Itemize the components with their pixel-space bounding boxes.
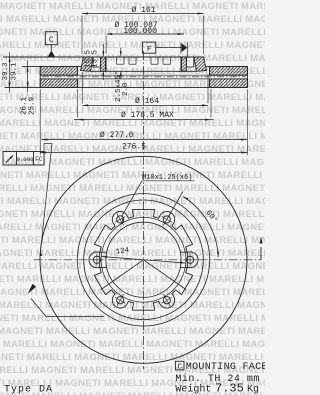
label Min. TH 24 mm	[175, 373, 260, 385]
svg-text:Weight: Weight	[175, 384, 211, 395]
svg-text:Ø 277.0: Ø 277.0	[100, 131, 134, 140]
label C MOUNTING FACE	[175, 361, 267, 373]
dimension O100.087/100.000	[106, 21, 184, 54]
svg-text:Ø 176.5 MAX: Ø 176.5 MAX	[121, 111, 174, 120]
dimension 26.1/25.9	[21, 61, 37, 116]
svg-text:MAGNETI MARELLI MAGNETI MARELL: MAGNETI MARELLI MAGNETI MARELLI MAGNETI …	[0, 235, 265, 246]
radial line to lower-right tab	[144, 260, 186, 290]
svg-text:Kg: Kg	[247, 385, 259, 395]
svg-text:MAGNETI MARELLI MAGNETI MARELL: MAGNETI MARELLI MAGNETI MARELLI MAGNETI …	[0, 339, 265, 350]
bolt hole M10 at 180deg	[90, 254, 104, 266]
hatched top plate right	[210, 67, 248, 76]
svg-text:FC: FC	[35, 156, 43, 163]
datum F symbol box with leader	[142, 42, 187, 57]
dimension 276.5 (front view)	[40, 143, 247, 154]
flange underside	[91, 70, 197, 72]
hub bore circle O100	[106, 222, 181, 297]
hatched flange block left (bore to bolt hole)	[101, 57, 106, 71]
dimension 39.3/39.1	[2, 52, 19, 93]
mounting face top line + left extension	[3, 56, 204, 58]
svg-text:C: C	[177, 363, 182, 371]
runout tolerance frame 0.080 FC with leader	[3, 144, 52, 257]
radial line to lower-left tab	[101, 260, 143, 290]
svg-text:39.1: 39.1	[10, 62, 18, 81]
bore keyway notch west	[100, 252, 107, 267]
svg-text:2.0: 2.0	[122, 82, 130, 96]
svg-text:MAGNETI MARELLI MAGNETI MARELL: MAGNETI MARELLI MAGNETI MARELLI MAGNETI …	[0, 326, 265, 337]
vent gap edges across hat interior	[77, 75, 209, 79]
svg-text:MOUNTING FACE: MOUNTING FACE	[186, 362, 265, 373]
svg-text:276.5: 276.5	[122, 143, 146, 152]
left border line	[2, 100, 4, 170]
bolt hole M10 at 0deg	[183, 254, 197, 266]
dimension 124 bolt circle	[101, 247, 186, 264]
svg-text:MAGNETI MARELLI MAGNETI MARELL: MAGNETI MARELLI MAGNETI MARELLI MAGNETI …	[0, 40, 265, 51]
bore keyway notch east	[181, 252, 188, 267]
svg-text:MAGNETI MARELLI MAGNETI MARELL: MAGNETI MARELLI MAGNETI MARELLI MAGNETI …	[0, 183, 265, 194]
svg-text:MAGNETI MARELLI MAGNETI MARELL: MAGNETI MARELLI MAGNETI MARELLI MAGNETI …	[0, 170, 265, 181]
horizontal centerline	[34, 259, 262, 261]
bolt hole M10 at 120deg	[115, 214, 125, 226]
surface leader arrow lower-left	[28, 284, 105, 317]
svg-text:MAGNETI MARELLI MAGNETI MARELL: MAGNETI MARELLI MAGNETI MARELLI MAGNETI …	[0, 287, 265, 298]
label M10x1.25(x6) with leader	[121, 174, 194, 222]
far-side bolt holes on flange	[117, 57, 171, 64]
svg-text:25.9: 25.9	[29, 97, 37, 115]
svg-text:100.000: 100.000	[123, 27, 157, 36]
dimension O161	[82, 6, 204, 54]
svg-text:MAGNETI MARELLI MAGNETI MARELL: MAGNETI MARELLI MAGNETI MARELLI MAGNETI …	[0, 53, 265, 64]
bolt hole M10 at 240deg	[115, 294, 125, 306]
dimension 15.5/13.5	[85, 44, 105, 80]
hatched top plate left	[40, 67, 77, 76]
hatched bottom plate right	[210, 79, 248, 88]
svg-text:MAGNETI MARELLI MAGNETI MARELL: MAGNETI MARELLI MAGNETI MARELLI MAGNETI …	[0, 92, 265, 103]
hatched hat wall right	[194, 57, 207, 71]
lobed drive ring outline with tabs	[89, 209, 198, 310]
svg-text:0.080: 0.080	[16, 156, 34, 163]
band inner circle O176.5	[77, 194, 209, 326]
svg-text:Type DA: Type DA	[4, 385, 53, 395]
brake disc section - braking band outline	[5, 67, 248, 88]
svg-text:F: F	[147, 46, 152, 54]
svg-text:26.1: 26.1	[21, 96, 29, 115]
svg-text:39.3: 39.3	[2, 62, 10, 81]
svg-text:C: C	[49, 36, 54, 45]
vent centerline dash-dot	[42, 76, 246, 78]
60 degree angle dimension	[168, 191, 220, 257]
hub bore right edge	[180, 57, 182, 71]
hatched bottom plate left	[40, 79, 77, 88]
hatched flange block right (bore to bolt hole)	[182, 57, 187, 71]
cut bolt hole right (section)	[186, 57, 193, 67]
cut bolt hole left (section)	[93, 57, 100, 67]
svg-text:7.35: 7.35	[215, 382, 244, 395]
section direction arrow right	[260, 237, 263, 260]
hatched hat wall left	[81, 57, 94, 71]
label Type DA	[4, 385, 53, 395]
section/bottom-view vertical centerline	[143, 51, 145, 369]
svg-text:Ø 164: Ø 164	[135, 97, 159, 106]
bolt hole M10 at 60deg	[162, 214, 172, 226]
dimension 2.5x45deg / 2.0 chamfer	[114, 48, 130, 102]
dimension O164	[82, 72, 208, 106]
hat circle O161	[84, 200, 204, 320]
outer disc circle O277	[40, 156, 247, 363]
datum C box and triangle	[45, 32, 57, 57]
bolt hole M10 at 300deg	[162, 294, 172, 306]
dimension O277.0 (section)	[40, 89, 247, 155]
label Weight 7.35 Kg	[175, 382, 259, 395]
hub bore left edge	[105, 57, 107, 71]
dimension O176.5 MAX	[74, 89, 214, 121]
svg-text:13.5: 13.5	[92, 50, 100, 69]
svg-text:MAGNETI MARELLI MAGNETI MARELL: MAGNETI MARELLI MAGNETI MARELLI MAGNETI …	[0, 274, 265, 285]
drive ring inner circle	[101, 217, 186, 302]
